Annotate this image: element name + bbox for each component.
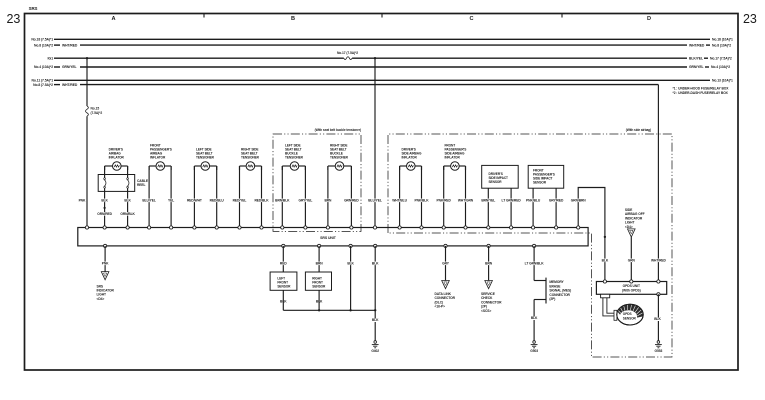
svg-text:GRN/YEL: GRN/YEL	[689, 65, 704, 69]
svg-text:BRN: BRN	[324, 198, 332, 202]
svg-text:No.8 (7.5A)*2: No.8 (7.5A)*2	[33, 83, 53, 87]
svg-text:INFLATOR: INFLATOR	[402, 156, 418, 160]
svg-text:BLK: BLK	[372, 318, 379, 322]
svg-text:SENSOR: SENSOR	[533, 180, 547, 184]
svg-text:BRN: BRN	[316, 261, 324, 265]
svg-text:TENSIONER: TENSIONER	[285, 156, 304, 160]
svg-text:No.4 (10A)*2: No.4 (10A)*2	[711, 65, 730, 69]
svg-text:BLK: BLK	[654, 317, 661, 321]
svg-text:<SCS>: <SCS>	[481, 309, 491, 313]
svg-text:GRN: GRN	[628, 258, 636, 262]
svg-text:IG1: IG1	[47, 56, 53, 60]
svg-text:INFLATOR: INFLATOR	[150, 156, 166, 160]
svg-text:BLK: BLK	[602, 258, 609, 262]
svg-text:C: C	[470, 16, 474, 22]
svg-text:WHT/GRN: WHT/GRN	[458, 198, 474, 202]
svg-text:B: B	[291, 16, 295, 22]
svg-text:BRN/YEL: BRN/YEL	[481, 198, 495, 202]
svg-text:GRN/RED: GRN/RED	[344, 198, 359, 202]
svg-text:RED/YEL: RED/YEL	[233, 198, 247, 202]
svg-text:INFLATOR: INFLATOR	[109, 156, 125, 160]
svg-text:BLK: BLK	[124, 198, 131, 202]
svg-text:WHT/BLU: WHT/BLU	[392, 198, 407, 202]
svg-text:RED/WHT: RED/WHT	[187, 198, 202, 202]
svg-text:GRY: GRY	[442, 261, 450, 265]
svg-text:ORN/BLK: ORN/BLK	[120, 212, 135, 216]
svg-text:BLK: BLK	[101, 198, 108, 202]
svg-text:TENSIONER: TENSIONER	[330, 156, 349, 160]
svg-text:SENSOR: SENSOR	[489, 180, 503, 184]
svg-text:G402: G402	[371, 349, 379, 353]
svg-text:A: A	[112, 16, 116, 22]
svg-text:GRN/YEL: GRN/YEL	[62, 65, 77, 69]
svg-text:No.13 (10A)*1: No.13 (10A)*1	[712, 79, 733, 83]
svg-text:(With seat belt buckle tension: (With seat belt buckle tensioner)	[315, 128, 361, 132]
svg-text:BLK: BLK	[347, 261, 354, 265]
svg-text:(2P): (2P)	[549, 297, 555, 301]
svg-text:WHT/RED: WHT/RED	[651, 258, 667, 262]
svg-text:ORN/RED: ORN/RED	[97, 212, 112, 216]
svg-text:No.18 (10A)*1: No.18 (10A)*1	[712, 38, 733, 42]
svg-text:LT GRN/BLK: LT GRN/BLK	[525, 261, 545, 265]
svg-text:<D4>: <D4>	[625, 225, 633, 229]
svg-text:BLK: BLK	[531, 316, 538, 320]
svg-text:INFLATOR: INFLATOR	[445, 156, 461, 160]
svg-text:WHT/RED: WHT/RED	[62, 43, 78, 47]
svg-text:TENSIONER: TENSIONER	[241, 156, 260, 160]
svg-text:GRN/BRN: GRN/BRN	[571, 198, 587, 202]
svg-text:SRS: SRS	[29, 6, 38, 11]
svg-text:No.17 (7.5A)*2: No.17 (7.5A)*2	[337, 51, 358, 55]
svg-text:TENSIONER: TENSIONER	[196, 156, 215, 160]
svg-text:WHT/RED: WHT/RED	[62, 83, 78, 87]
svg-text:BLU/YEL: BLU/YEL	[142, 198, 156, 202]
svg-text:BLK: BLK	[372, 261, 379, 265]
svg-text:(With OPDS): (With OPDS)	[622, 289, 641, 293]
svg-text:PNK: PNK	[102, 261, 109, 265]
svg-text:REEL: REEL	[137, 183, 146, 187]
svg-text:No.17 (7.5A)*2: No.17 (7.5A)*2	[710, 56, 732, 60]
svg-text:<16-P>: <16-P>	[435, 305, 445, 309]
svg-text:<D4>: <D4>	[97, 297, 105, 301]
svg-text:G503: G503	[530, 349, 538, 353]
svg-text:BRN: BRN	[485, 261, 493, 265]
svg-text:No.18 (7.5A)*1: No.18 (7.5A)*1	[31, 38, 53, 42]
svg-text:PNK: PNK	[79, 198, 86, 202]
svg-text:RED/BLK: RED/BLK	[254, 198, 269, 202]
svg-text:*2 : UNDER-DASH FUSE/RELAY BOX: *2 : UNDER-DASH FUSE/RELAY BOX	[673, 91, 729, 95]
svg-text:BLK/YEL: BLK/YEL	[689, 56, 703, 60]
svg-text:SENSOR: SENSOR	[277, 284, 291, 288]
svg-text:No.4 (10A)*2: No.4 (10A)*2	[34, 65, 53, 69]
svg-text:SENSOR: SENSOR	[623, 316, 637, 320]
svg-text:LT GRN/RED: LT GRN/RED	[502, 198, 522, 202]
svg-text:PNK/RED: PNK/RED	[437, 198, 452, 202]
svg-text:GRY/RED: GRY/RED	[549, 198, 564, 202]
svg-text:PNK/BLK: PNK/BLK	[414, 198, 429, 202]
svg-text:SENSOR: SENSOR	[312, 284, 326, 288]
svg-text:(With side airbag): (With side airbag)	[626, 128, 651, 132]
svg-text:GRY/YEL: GRY/YEL	[299, 198, 313, 202]
svg-text:RED: RED	[280, 261, 287, 265]
svg-text:G553: G553	[655, 349, 663, 353]
svg-text:BRN/BLK: BRN/BLK	[275, 198, 290, 202]
svg-text:No.8 (10A)*2: No.8 (10A)*2	[712, 43, 731, 47]
svg-text:WHT/RED: WHT/RED	[689, 43, 705, 47]
svg-text:YEL: YEL	[168, 198, 174, 202]
svg-text:BLU/YEL: BLU/YEL	[368, 198, 382, 202]
svg-text:23: 23	[7, 12, 21, 26]
svg-text:PNK/BLU: PNK/BLU	[526, 198, 541, 202]
svg-text:RED/BLU: RED/BLU	[210, 198, 225, 202]
svg-text:No.8 (10A)*2: No.8 (10A)*2	[34, 43, 53, 47]
svg-text:(7.5A)*2: (7.5A)*2	[91, 111, 103, 115]
svg-text:D: D	[647, 16, 651, 22]
svg-text:23: 23	[743, 12, 757, 26]
svg-text:SRS UNIT: SRS UNIT	[320, 236, 337, 240]
svg-text:OPDS UNIT: OPDS UNIT	[623, 284, 640, 288]
